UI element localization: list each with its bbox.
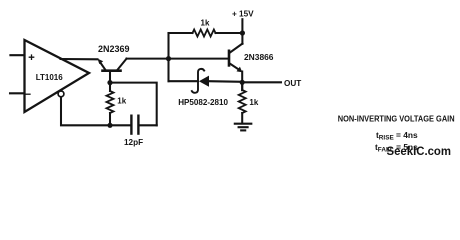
- wire resistor to +15V dot: [216, 32, 243, 34]
- Q2 emitter lead: [230, 64, 239, 70]
- Q1 emitter lead: [100, 62, 105, 70]
- Q1 base lead: [109, 72, 111, 83]
- op-amp + input wire: [10, 54, 24, 56]
- resistor R2 1k (top, horizontal): [193, 30, 216, 37]
- diode D1 triangle: [199, 76, 209, 87]
- wire bottom node to capacitor: [110, 124, 130, 126]
- svg-text:HP5082-2810: HP5082-2810: [178, 98, 228, 107]
- svg-text:LT1016: LT1016: [36, 72, 63, 82]
- Q1 emitter arrowhead: [98, 59, 104, 65]
- svg-text:2N3866: 2N3866: [244, 52, 274, 62]
- svg-text:2N2369: 2N2369: [98, 44, 130, 54]
- wire riser from top rail down to diode: [167, 33, 169, 81]
- node out junction dot: [240, 80, 245, 85]
- Q2 emitter arrowhead: [237, 67, 243, 73]
- svg-text:1k: 1k: [249, 98, 258, 107]
- Q1 collector lead: [118, 59, 127, 70]
- diode D1 schottky cathode bar: [192, 69, 204, 93]
- wire out node to OUT: [242, 81, 281, 83]
- node junction dot at riser/collector wire: [166, 56, 171, 61]
- node +15V junction dot: [240, 30, 245, 35]
- diode D1 wire right segment: [209, 80, 242, 83]
- op-amp + mark: [29, 55, 33, 59]
- op-amp - mark: [26, 93, 30, 95]
- node bottom junction dot: [107, 123, 112, 128]
- op-amp - input wire: [10, 92, 25, 94]
- svg-text:tRISE = 4ns: tRISE = 4ns: [376, 130, 418, 142]
- Q2 collector lead: [230, 44, 243, 53]
- resistor R1 1k (vertical) leads: [109, 83, 111, 91]
- wire op-amp output to Q1 emitter: [61, 58, 98, 60]
- diode D1 wire left segment: [169, 80, 198, 82]
- wire capacitor right stub: [140, 124, 157, 126]
- transistor Q2 2N3866 base bar: [228, 51, 231, 66]
- ground symbol: [235, 123, 252, 125]
- capacitor C1 12pF plates: [130, 116, 132, 134]
- resistor R3 1k (right vertical): [241, 82, 243, 90]
- wire Q1 collector to Q2 base: [127, 58, 228, 60]
- wire +15V stub and Q2 collector drop: [241, 19, 243, 44]
- svg-text:12pF: 12pF: [124, 138, 143, 147]
- node Q1 base junction dot: [107, 80, 112, 85]
- svg-text:NON-INVERTING VOLTAGE GAIN: NON-INVERTING VOLTAGE GAIN: [338, 114, 455, 124]
- svg-text:1k: 1k: [117, 97, 126, 106]
- wire base node stub right: [110, 83, 157, 126]
- svg-text:1k: 1k: [201, 18, 210, 27]
- latch pin circle: [58, 91, 64, 97]
- svg-text:OUT: OUT: [284, 79, 301, 88]
- op-amp U1 LT1016 triangle: [25, 40, 90, 112]
- transistor Q1 2N2369 base bar: [103, 69, 121, 72]
- latch pin wire down and right: [61, 97, 108, 125]
- svg-text:tFALL = 5ns: tFALL = 5ns: [375, 142, 418, 154]
- svg-text:+ 15V: + 15V: [232, 9, 254, 18]
- wire Q2 emitter down to out node: [241, 72, 243, 91]
- wire top rail to +15V node: [169, 32, 193, 34]
